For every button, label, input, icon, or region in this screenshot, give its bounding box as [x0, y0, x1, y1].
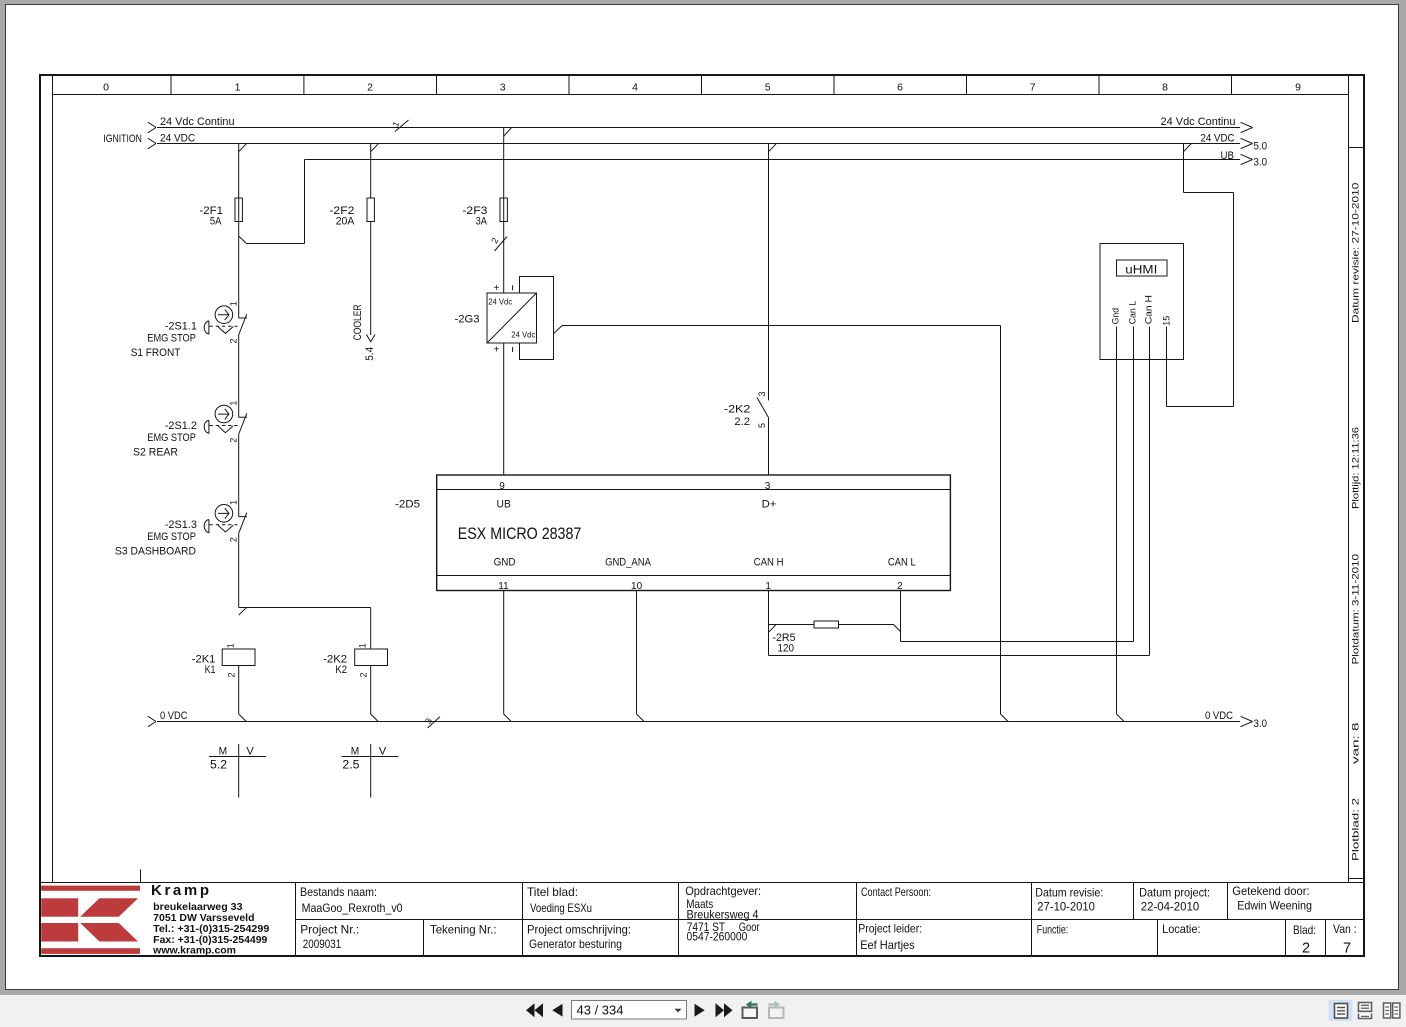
junction uHMI supply [1184, 144, 1192, 152]
cell Project leider [858, 922, 922, 953]
emergency stop S1.3 [204, 434, 247, 533]
cell Project omschrijving [527, 923, 631, 952]
label COOLER rotated [352, 304, 364, 340]
cell Datum project [1139, 886, 1210, 914]
uHMI pin 15 [1162, 316, 1173, 326]
Kramp logo [41, 886, 140, 954]
svg-text:43 / 334: 43 / 334 [577, 1003, 624, 1018]
label fuse F3 [462, 205, 487, 228]
label fuse F1 [200, 205, 224, 228]
wire ESX GND pin 11 [504, 591, 512, 722]
label relay K1 [192, 654, 216, 676]
bus 24 VDC [148, 138, 1253, 148]
nav next page button [695, 1004, 705, 1017]
relay coil K1 [222, 649, 255, 722]
column number 2 [367, 82, 373, 94]
cell Tekening Nr [430, 923, 497, 937]
junction 2F3 [504, 128, 512, 137]
converter G3 minus bracket [513, 277, 554, 360]
ESX pin 9 [497, 481, 511, 511]
label 0 VDC right [1205, 710, 1233, 722]
label 24 Vdc Continu right [1161, 116, 1236, 128]
uHMI pin Can H [1144, 295, 1155, 324]
nav first page button [526, 1003, 543, 1017]
label 3.0 top [1254, 157, 1268, 169]
column number 7 [1030, 82, 1036, 94]
page number box [572, 1001, 687, 1020]
wire number 3 slash [428, 717, 441, 728]
emergency stop S1.1 [204, 236, 247, 335]
fold mark [140, 870, 142, 882]
cell Contact Persoon [861, 885, 931, 899]
ESX pin CAN L [888, 557, 916, 593]
column number 1 [235, 82, 241, 94]
cell Blad [1293, 923, 1316, 957]
facing pages view button [1384, 1003, 1400, 1018]
column number 4 [632, 82, 638, 94]
wire CAN L [901, 360, 1134, 642]
wire uHMI pin 15 supply [1167, 144, 1234, 407]
label ESX title [458, 525, 582, 543]
pin numbers coil K2 [358, 643, 369, 677]
continuous view button [1359, 1003, 1372, 1019]
fuse F3 [500, 128, 507, 293]
cell Opdrachtgever [685, 884, 761, 944]
column number 9 [1295, 82, 1301, 94]
label relay contact K2.2 [724, 404, 751, 429]
band text Datum revisie [1351, 183, 1362, 323]
label 24 Vdc Continu left [160, 116, 235, 128]
uHMI pin Can L [1128, 301, 1139, 324]
emergency stop S1.2 [204, 335, 247, 434]
resistor R5 [769, 621, 901, 632]
wire number 1 slash [395, 120, 409, 132]
bus 24 Vdc Continu [148, 122, 1253, 132]
band text Plotblad 2 [1351, 798, 1362, 861]
label G3 plus bottom [494, 345, 500, 356]
fuse F2 [367, 144, 374, 336]
label ESX designator D5 [395, 499, 420, 511]
band text Plottijd [1351, 427, 1362, 509]
cooler arrow [366, 335, 375, 342]
cell Van [1333, 922, 1357, 957]
bus UB [305, 154, 1253, 164]
Kramp address [151, 882, 270, 957]
next view button disabled [769, 1001, 784, 1018]
ESX pin 3 [762, 481, 777, 511]
potential marker M V 5.2 [209, 744, 266, 798]
cell Datum revisie [1035, 886, 1103, 914]
band text Plotdatum [1351, 554, 1362, 665]
left margin line [52, 77, 54, 883]
uHMI pin Gnd [1111, 308, 1122, 324]
uHMI pin stubs [1117, 327, 1167, 360]
ESX pin GND_ANA [605, 557, 651, 593]
cell Getekend door [1232, 884, 1312, 913]
wire number 2 text [489, 236, 500, 245]
junction 2F2 [371, 144, 379, 152]
junction 2F1 [239, 144, 247, 152]
cell Locatie [1162, 922, 1200, 936]
relay coil K2 [355, 649, 388, 722]
label relay K2 [323, 654, 347, 676]
wire ESX GND_ANA pin 10 [637, 591, 645, 722]
label resistor R5 [773, 632, 796, 655]
label uHMI [1125, 265, 1157, 277]
band text van 8 [1351, 723, 1362, 765]
title block lines [42, 883, 1364, 956]
label 3.0 bottom [1254, 718, 1268, 730]
label G3 24Vdc output [511, 329, 536, 339]
cell Project Nr [300, 923, 359, 952]
label 5.0 [1254, 141, 1268, 153]
wire S1.3 to relay branch [239, 533, 371, 649]
ESX block [437, 475, 951, 591]
nav last page button [716, 1003, 733, 1017]
converter G3 output wire [554, 326, 1009, 722]
label 24 VDC left [160, 133, 195, 145]
nav previous page button [552, 1004, 562, 1017]
column number 6 [897, 82, 903, 94]
wire number 1 text [390, 120, 401, 129]
fuse F1 [235, 144, 305, 244]
pin numbers K2.2 [757, 391, 767, 428]
pin numbers S1.1 [228, 301, 238, 343]
pin numbers S1.3 [228, 500, 238, 542]
cell Bestands naam [300, 885, 403, 915]
label M V 5.2 [210, 746, 255, 772]
wire CAN H [769, 360, 1150, 656]
bus 0 VDC [148, 716, 1253, 726]
right info band [1349, 77, 1364, 883]
column header band [53, 77, 1349, 95]
potential marker M V 2.5 [342, 744, 399, 798]
previous view button [743, 1001, 758, 1018]
junction K2 contact [769, 144, 777, 152]
cell Functie [1037, 923, 1068, 937]
fuse F1 body wire [238, 198, 240, 222]
ESX pin CAN H [754, 557, 784, 593]
wire uHMI Gnd to 0VDC [1117, 360, 1125, 722]
label emg S1.1 [131, 321, 197, 360]
pin numbers S1.2 [228, 401, 238, 443]
label emg S1.2 [133, 420, 197, 459]
label IGNITION [103, 133, 142, 145]
label G3 plus top [494, 283, 500, 294]
viewer toolbar [0, 995, 1406, 1027]
label UB right [1221, 150, 1235, 162]
label 0 VDC left [160, 710, 188, 722]
label 24 VDC right [1201, 133, 1235, 145]
label G3 24Vdc input [488, 297, 513, 307]
ESX pin GND [494, 557, 516, 593]
label 5.4 rotated [364, 347, 376, 361]
label emg S1.3 [115, 519, 197, 558]
column number 3 [500, 82, 506, 94]
label converter G3 [455, 314, 480, 326]
converter G3 box [487, 293, 537, 343]
single page view button selected [1329, 1000, 1353, 1021]
wire G3 plus output to ESX pin 9 [503, 343, 505, 475]
wire number 3 text [423, 717, 434, 726]
uHMI box [1100, 244, 1184, 360]
label fuse F2 [329, 205, 355, 228]
wire number 2 slash [495, 237, 508, 252]
label M V 2.5 [342, 746, 387, 772]
pin numbers coil K1 [226, 643, 237, 677]
column number 5 [765, 82, 771, 94]
column number 0 [103, 82, 109, 94]
relay contact K2.2 [757, 144, 769, 476]
column number 8 [1162, 82, 1168, 94]
cell Titel blad [527, 885, 592, 915]
